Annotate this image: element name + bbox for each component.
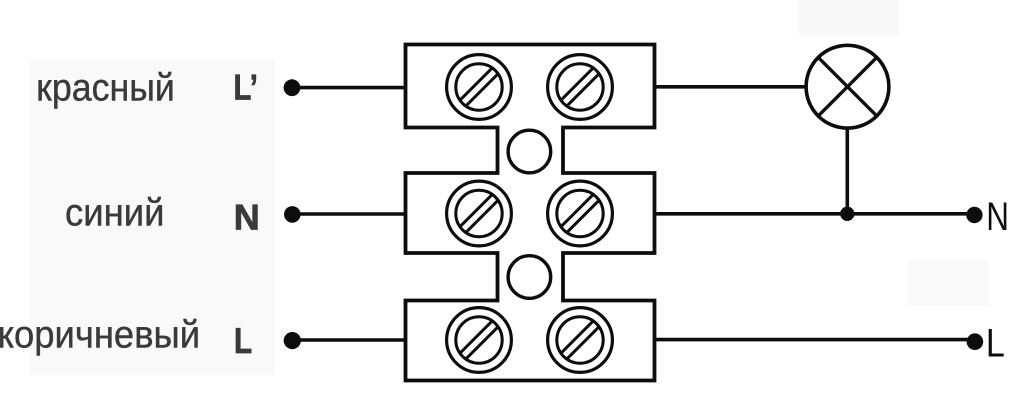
svg-text:коричневый: коричневый bbox=[0, 313, 200, 356]
svg-text:L: L bbox=[986, 321, 1005, 365]
svg-text:N: N bbox=[986, 195, 1009, 239]
svg-text:L: L bbox=[234, 320, 252, 361]
svg-text:N: N bbox=[234, 196, 260, 237]
svg-text:красный: красный bbox=[36, 67, 175, 110]
svg-text:синий: синий bbox=[65, 192, 164, 235]
svg-text:L’: L’ bbox=[233, 67, 257, 108]
